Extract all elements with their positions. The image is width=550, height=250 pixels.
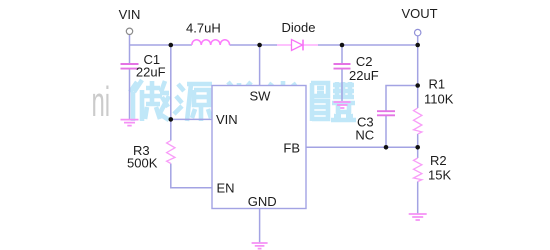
watermark gray letters ni (92, 79, 111, 126)
junction at SW column (257, 43, 262, 48)
value 500K (127, 155, 158, 170)
pin label GND (248, 194, 277, 209)
svg-text:15K: 15K (428, 168, 451, 183)
wire: VIN pin connection (171, 118, 212, 120)
svg-text:FB: FB (283, 140, 300, 155)
label VOUT (401, 6, 437, 21)
junction at C3 bottom / FB (384, 145, 389, 150)
svg-text:VIN: VIN (216, 112, 238, 127)
resistor R2 (414, 158, 422, 182)
wire: GND pin drop (259, 209, 261, 243)
ground under R2 (409, 214, 427, 220)
label VIN (119, 7, 141, 22)
wire: VIN top rail (130, 44, 418, 46)
wire: C3 top branch from VOUT column (386, 86, 418, 148)
capacitor C1 (121, 64, 139, 69)
svg-text:SW: SW (250, 88, 272, 103)
junction at C3 top (415, 83, 420, 88)
svg-text:C2: C2 (356, 54, 373, 69)
char 4 (dao, mostly hidden by IC box) (264, 81, 302, 118)
label R3 (133, 143, 150, 158)
svg-text:GND: GND (248, 194, 277, 209)
pin label FB (283, 140, 300, 155)
pin label SW (250, 88, 272, 103)
wire: VIN terminal drop / C1 branch (129, 35, 131, 120)
resistor R3 (167, 141, 175, 164)
svg-text:22uF: 22uF (136, 65, 166, 80)
junction at FB / divider (415, 145, 420, 150)
junction at VOUT column (415, 43, 420, 48)
value 110K (424, 91, 454, 106)
label C1 (144, 52, 161, 67)
label NC (355, 128, 374, 143)
char 5 (ti) (311, 82, 356, 121)
svg-text:Diode: Diode (282, 20, 316, 35)
watermark blue characters (130, 80, 356, 122)
svg-text:R1: R1 (429, 76, 446, 91)
wire: node VIN vertical to R3 and EN (171, 45, 212, 188)
ground under C2 (334, 102, 351, 108)
svg-text:VIN: VIN (119, 7, 141, 22)
value 22uF (136, 65, 166, 80)
pin label VIN (216, 112, 238, 127)
node VOUT terminal (415, 29, 421, 35)
junction at C2 column (340, 43, 345, 48)
node VIN terminal (126, 28, 132, 34)
wire: FB net (306, 146, 418, 148)
svg-text:VOUT: VOUT (401, 6, 437, 21)
ground under C1 (121, 120, 139, 126)
capacitor C3 (377, 111, 395, 115)
junction at VIN pin (169, 117, 174, 122)
char 1 (wei) (130, 80, 169, 121)
diode D1 (277, 40, 318, 51)
capacitor C2 (334, 64, 351, 69)
svg-text:R2: R2 (430, 153, 447, 168)
svg-text:EN: EN (217, 181, 235, 196)
wire: C2 branch (341, 45, 343, 101)
value label 4.7uH (186, 20, 221, 35)
char 2 (yuan) (174, 84, 212, 121)
svg-text:ni: ni (92, 79, 111, 126)
svg-text:110K: 110K (424, 91, 454, 106)
resistor R1 (414, 108, 422, 134)
label R2 (430, 153, 447, 168)
wire: VOUT terminal drop and R1/R2 divider column (417, 36, 419, 214)
junction at VIN rail / C1 column (169, 43, 174, 48)
label C3 (357, 114, 374, 129)
pin label EN (217, 181, 235, 196)
value 15K (428, 168, 451, 183)
label R1 (429, 76, 446, 91)
label C2 (356, 54, 373, 69)
wire: SW pin to rail (259, 45, 261, 86)
op-amp U1 IC box (212, 86, 306, 209)
svg-text:500K: 500K (127, 155, 158, 170)
char 3 (ban, mostly hidden by IC box) (219, 82, 260, 122)
svg-text:4.7uH: 4.7uH (186, 20, 221, 35)
inductor L1 4.7uH (192, 40, 230, 45)
value 22uF (349, 68, 379, 83)
label Diode (282, 20, 316, 35)
svg-text:22uF: 22uF (349, 68, 379, 83)
svg-text:NC: NC (355, 128, 374, 143)
ground under GND pin (252, 243, 268, 249)
